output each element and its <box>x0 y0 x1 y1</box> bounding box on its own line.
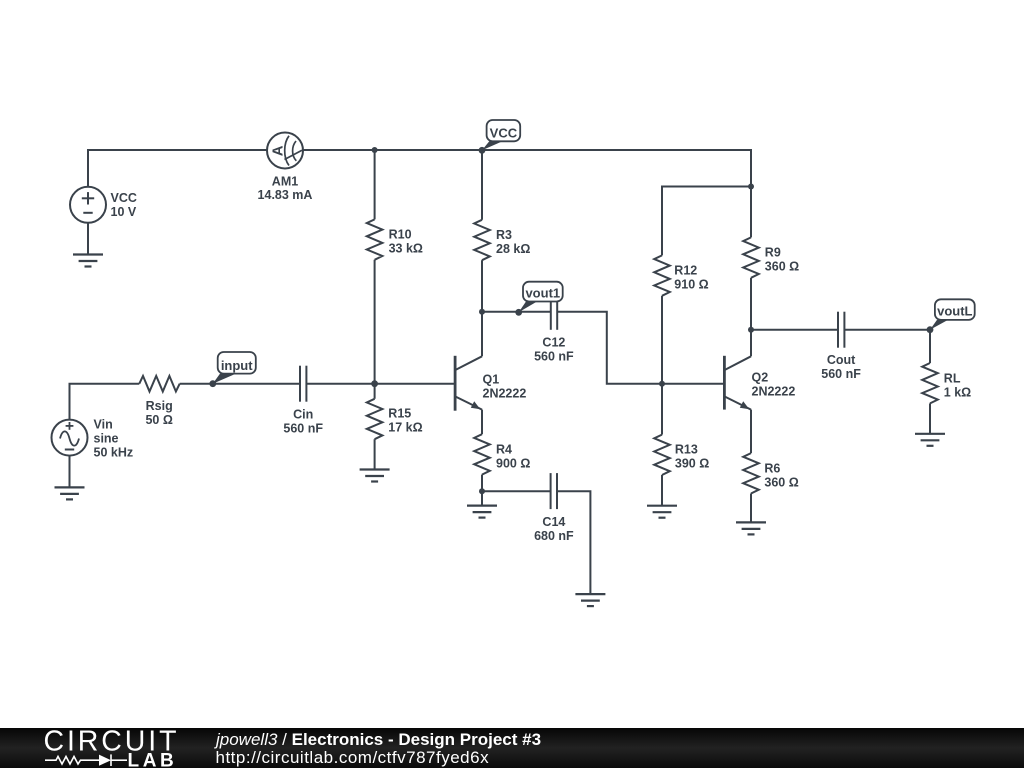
wire vout1 rail <box>482 311 551 313</box>
svg-text:Cin: Cin <box>293 407 313 421</box>
wire Rsig to Cin <box>180 383 300 385</box>
svg-text:jpowell3 / Electronics - Desig: jpowell3 / Electronics - Design Project … <box>214 730 541 749</box>
svg-text:R4: R4 <box>496 443 512 457</box>
node dot R4 bottom <box>479 488 485 494</box>
transistor Q1 <box>455 312 526 411</box>
svg-text:33 kΩ: 33 kΩ <box>389 242 423 256</box>
svg-text:560 nF: 560 nF <box>534 349 574 363</box>
wire R4 node to C14 <box>482 490 551 492</box>
resistor R3 <box>474 150 530 312</box>
ground under Vin <box>55 487 85 499</box>
ground under RL <box>915 434 945 446</box>
ground under VCC source <box>73 255 103 267</box>
svg-text:R3: R3 <box>496 228 512 242</box>
resistor R4 <box>474 434 530 491</box>
svg-text:A: A <box>269 145 286 156</box>
wire Q2 emitter to R6 <box>750 410 752 454</box>
capacitor C14 <box>534 473 574 543</box>
resistor R6 <box>743 453 799 522</box>
svg-text:2N2222: 2N2222 <box>483 386 527 400</box>
svg-text:Q1: Q1 <box>483 372 500 386</box>
node dot vout1 junction <box>479 309 485 315</box>
svg-text:R6: R6 <box>764 461 780 475</box>
ground under R4 <box>467 506 497 518</box>
svg-text:560 nF: 560 nF <box>283 421 323 435</box>
resistor R10 <box>367 150 423 384</box>
node dot voutL <box>927 326 934 333</box>
svg-text:2N2222: 2N2222 <box>752 385 796 399</box>
wire Cin to Q1 base <box>306 383 455 385</box>
voltage source Vin <box>52 417 134 459</box>
svg-text:Cout: Cout <box>827 353 856 367</box>
ground under R15 <box>360 470 390 482</box>
node dot base rail / R12 / R13 <box>659 381 665 387</box>
svg-text:Vin: Vin <box>94 417 113 431</box>
node dot R9/R12 junction <box>748 184 754 190</box>
svg-text:R12: R12 <box>674 264 697 278</box>
wire top rail right segment <box>303 150 751 187</box>
wire Cout to voutL node <box>844 329 930 331</box>
svg-text:Q2: Q2 <box>752 371 769 385</box>
svg-text:390 Ω: 390 Ω <box>675 456 709 470</box>
ground under R13 <box>647 506 677 518</box>
svg-text:R13: R13 <box>675 442 698 456</box>
svg-text:Rsig: Rsig <box>146 399 173 413</box>
node dot vout1 flag <box>515 309 522 316</box>
wire R4 node to ground stub <box>481 491 483 505</box>
node dot base rail / R10 / R15 <box>371 380 378 387</box>
resistor RL <box>922 330 971 434</box>
svg-text:50 Ω: 50 Ω <box>145 413 172 427</box>
wire C12 to base rail of Q2 <box>557 312 724 384</box>
svg-text:vout1: vout1 <box>525 286 560 301</box>
node dot top rail / R10 <box>372 147 378 153</box>
svg-text:360 Ω: 360 Ω <box>764 475 798 489</box>
flag voutL <box>930 299 975 329</box>
svg-text:sine: sine <box>94 431 119 445</box>
svg-text:C14: C14 <box>542 515 565 529</box>
ammeter AM1 <box>258 133 313 202</box>
wire C14 to ground <box>557 491 590 594</box>
wire top rail left segment <box>88 150 267 187</box>
ground under R6 <box>736 522 766 534</box>
svg-text:560 nF: 560 nF <box>821 367 861 381</box>
svg-text:910 Ω: 910 Ω <box>674 278 708 292</box>
node dot top rail / R3 / VCC flag <box>479 147 486 154</box>
capacitor Cout <box>821 312 861 381</box>
wire collector rail to Cout <box>751 329 838 331</box>
node dot Q2 collector <box>748 327 754 333</box>
svg-text:17 kΩ: 17 kΩ <box>388 421 422 435</box>
svg-text:R15: R15 <box>388 407 411 421</box>
svg-text:R9: R9 <box>765 245 781 259</box>
wire Vin to ground <box>69 456 71 488</box>
svg-text:voutL: voutL <box>937 304 972 319</box>
wire Q1 emitter to R4 <box>481 410 483 435</box>
svg-text:28 kΩ: 28 kΩ <box>496 242 530 256</box>
svg-text:RL: RL <box>944 372 961 386</box>
resistor R12 <box>654 255 708 383</box>
svg-text:http://circuitlab.com/ctfv787f: http://circuitlab.com/ctfv787fyed6x <box>216 748 490 767</box>
flag VCC <box>482 120 520 150</box>
svg-text:VCC: VCC <box>490 126 518 141</box>
flag vout1 <box>519 282 563 313</box>
svg-text:C12: C12 <box>542 335 565 349</box>
svg-text:14.83 mA: 14.83 mA <box>258 188 313 202</box>
svg-text:900 Ω: 900 Ω <box>496 457 530 471</box>
logo schematic symbol <box>45 754 127 766</box>
svg-text:10 V: 10 V <box>111 205 137 219</box>
node dot input flag <box>209 380 216 387</box>
capacitor Cin <box>283 366 323 436</box>
flag input <box>213 352 256 384</box>
svg-text:R10: R10 <box>389 228 412 242</box>
svg-text:1 kΩ: 1 kΩ <box>944 386 971 400</box>
svg-text:AM1: AM1 <box>272 174 298 188</box>
capacitor C12 <box>534 294 574 364</box>
svg-text:input: input <box>221 358 253 373</box>
svg-text:50 kHz: 50 kHz <box>94 445 134 459</box>
wire R12 top <box>662 187 751 256</box>
voltage source VCC 10V <box>70 187 137 223</box>
svg-text:LAB: LAB <box>128 750 178 768</box>
wire Vin to base rail <box>70 384 140 420</box>
svg-text:680 nF: 680 nF <box>534 529 574 543</box>
ground under C14 <box>575 594 605 606</box>
transistor Q2 <box>724 330 795 410</box>
resistor R9 <box>743 187 799 330</box>
svg-text:360 Ω: 360 Ω <box>765 259 799 273</box>
resistor R13 <box>654 384 709 506</box>
svg-text:VCC: VCC <box>111 191 137 205</box>
resistor R15 <box>367 384 423 470</box>
footer bar <box>0 728 1024 768</box>
resistor Rsig <box>139 376 179 427</box>
wire VCC source to ground <box>87 223 89 255</box>
